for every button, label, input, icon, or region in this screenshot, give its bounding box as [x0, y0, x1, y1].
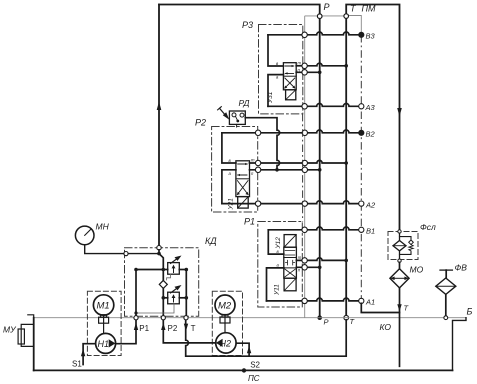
KD dash-dot box: [125, 248, 199, 317]
bottom of manifold: P dot and T circle on tank top: [317, 315, 322, 320]
svg-text:МУ: МУ: [3, 325, 17, 335]
wire: B2 row: [222, 130, 359, 133]
wire: FV to tank top: [445, 294, 447, 316]
port circles on plate: [302, 227, 307, 232]
motor unit 1 dashed box: [87, 291, 121, 355]
valve Y21 top cell arrows: [238, 164, 247, 175]
drain port PS dot: [242, 368, 246, 372]
svg-text:т: т: [298, 61, 302, 66]
wire: B2 loop to valve: [222, 133, 236, 163]
port A1 open: [359, 298, 364, 303]
coupling 1: [103, 315, 105, 333]
svg-text:P: P: [324, 2, 330, 12]
oil level gauge MU: [21, 324, 34, 346]
svg-text:У31: У31: [267, 91, 274, 104]
manifold plate thin right top corner to B3: [348, 16, 361, 33]
svg-text:МО: МО: [410, 265, 424, 275]
junction on P bus: [318, 266, 322, 270]
svg-text:А1: А1: [365, 298, 375, 307]
solenoid Y11 box: [284, 278, 296, 291]
wire: KP2 input: [163, 297, 167, 299]
S1 arrow up: [81, 349, 85, 356]
svg-text:У21: У21: [228, 198, 235, 211]
node: T top port circle: [344, 14, 349, 19]
svg-text:А2: А2: [365, 201, 376, 210]
tank left wall: [33, 318, 35, 371]
svg-text:а: а: [229, 171, 232, 176]
section P3 dash-dot box: [259, 25, 303, 114]
P1 flow arrow up: [134, 323, 138, 330]
svg-text:МН: МН: [96, 222, 110, 232]
node: P1 circle on tank top: [134, 316, 138, 320]
wire: B1 loop to valve: [268, 230, 284, 254]
P bus vertical line: [319, 19, 321, 318]
svg-text:Н1: Н1: [98, 339, 110, 349]
wire: KP2 output to T riser: [179, 297, 186, 299]
wire: P2 riser down and to H2 inlet: [163, 320, 215, 343]
wire: cooler to tank: [399, 288, 401, 366]
motor M2 circle: [215, 295, 235, 315]
wire: A1/B line to drain: [361, 303, 399, 312]
wire: to cooler MO: [399, 262, 401, 268]
pump H2 triangle: [216, 339, 223, 347]
wire: main pressure top line from riser to P node: [159, 5, 320, 14]
svg-text:КО: КО: [380, 322, 392, 332]
svg-text:Р: Р: [324, 318, 329, 327]
svg-text:п: п: [251, 171, 254, 176]
port A2 open: [359, 201, 364, 206]
valve bottom cell crossed arrows: [285, 269, 296, 277]
wire: P2 riser inside KD below check valve: [162, 288, 164, 316]
wire: valve Y21 T row to T bus: [250, 160, 346, 163]
svg-text:S2: S2: [250, 361, 260, 370]
S2 arrow up: [247, 346, 251, 353]
junction on P bus: [318, 168, 322, 172]
svg-text:Р3: Р3: [242, 20, 253, 30]
wire: P1 branch joining riser: [136, 269, 163, 271]
manifold plate thin left edge: [304, 16, 306, 318]
junction on T bus: [344, 259, 348, 263]
motor unit 2 dashed box: [212, 291, 242, 355]
tank top left lip: [28, 315, 34, 318]
pump H2 circle: [216, 333, 236, 353]
svg-text:У11: У11: [274, 284, 281, 296]
KP1 adjustment arrow: [171, 257, 180, 263]
wire: valve P row to P bus: [296, 266, 318, 268]
tank top thin line: [34, 317, 466, 319]
T return arrow down: [397, 304, 401, 311]
valve Y21 body: [236, 161, 250, 197]
KP2 adjustment arrow: [171, 287, 180, 293]
svg-text:P2: P2: [168, 324, 178, 333]
node: circle at Fsl outlet: [398, 259, 401, 262]
node: circle at Fsl inlet: [398, 230, 401, 233]
node: T circle on tank top: [184, 316, 188, 320]
manifold plate thin outline top: [305, 15, 346, 17]
svg-text:T: T: [191, 324, 196, 333]
wire: B3 loop to valve: [268, 35, 283, 66]
port circle T row on plate: [302, 63, 307, 68]
svg-text:а: а: [277, 263, 280, 268]
tank right wall with lip: [453, 318, 467, 371]
wire: B1 row: [268, 227, 359, 230]
wire: A3 row: [268, 104, 359, 107]
svg-text:Т: Т: [350, 317, 356, 326]
wire: left main riser from KD block up to top line: [158, 5, 160, 246]
wire: into filter: [399, 233, 401, 241]
air filter FV diamond: [436, 278, 456, 294]
wire: KP1 input: [163, 269, 167, 271]
wire: A2 loop to valve: [222, 170, 236, 204]
port B1 open: [359, 227, 364, 232]
svg-text:КД: КД: [205, 236, 217, 246]
relief valve KP2 square: [168, 292, 180, 304]
valve Y31 bottom cell crossed arrows: [285, 78, 295, 88]
svg-text:т: т: [251, 158, 255, 163]
wire: P1 riser: [135, 270, 137, 317]
junction on P bus: [318, 71, 322, 75]
section P2 dash-dot box: [212, 127, 258, 213]
valve Y21 bottom cell crossed arrows: [237, 181, 248, 195]
svg-text:В2: В2: [366, 130, 376, 139]
svg-text:ПС: ПС: [248, 374, 260, 383]
svg-text:P1: P1: [139, 324, 149, 333]
air filter FV top bar: [440, 269, 452, 271]
RD actuation arrow: [220, 108, 227, 117]
tiny port letters P3 valve: [229, 61, 302, 273]
svg-text:ПМ: ПМ: [362, 4, 377, 14]
port B2 filled: [359, 130, 364, 135]
wire: H1 outlet to P1 riser: [116, 320, 136, 344]
wire: T return down into tank, right and up to manifold T: [186, 320, 347, 357]
pump H1 circle: [96, 333, 116, 353]
wire: T riser inside KD: [185, 270, 187, 317]
junction on T bus: [344, 161, 348, 165]
junction RD on P row: [275, 168, 279, 172]
filter Fsl dashed box: [388, 232, 418, 260]
svg-text:т: т: [298, 255, 302, 260]
wire: KP1 output to T riser: [179, 269, 186, 271]
gauge MN circle: [75, 226, 94, 245]
port circle B3 row on plate: [302, 32, 307, 37]
wire: A1 loop to valve: [267, 268, 284, 301]
section P1 dash-dot box: [258, 222, 303, 308]
valve body 3 position: [284, 247, 297, 278]
svg-text:п: п: [298, 268, 301, 273]
port A3 open: [359, 104, 364, 109]
cooler MO diamond: [390, 269, 409, 288]
boundary dash-dot line with ports A/B: [360, 35, 362, 301]
svg-text:М2: М2: [218, 301, 232, 312]
wire: filter outlet: [399, 251, 401, 259]
wire: gauge line from riser: [85, 245, 157, 254]
wire: valve T row to T bus: [296, 258, 345, 261]
node: circle crossing KD box edge: [124, 252, 128, 256]
wire: H1 suction S1: [83, 344, 96, 365]
solenoid Y31 box: [286, 90, 296, 100]
junction on T bus: [344, 64, 348, 68]
valve middle cell closed center: [286, 260, 295, 265]
node: P top port circle: [317, 14, 322, 19]
port circles on P2 box edge: [255, 130, 260, 135]
pump H1 triangle: [109, 339, 116, 347]
wire: A1 row: [267, 298, 359, 301]
KP1 pilot hook: [167, 274, 171, 280]
cooler arrows: [393, 277, 406, 279]
wire: T top line to right drain column: [346, 5, 399, 230]
motor M1 circle: [93, 295, 113, 315]
svg-text:Б: Б: [467, 307, 473, 317]
relief valve KP1 square: [168, 263, 180, 275]
solenoid Y21 box: [238, 197, 249, 209]
wire: valve Y31 T row to T bus: [296, 63, 345, 66]
check valve diamond: [159, 280, 167, 288]
svg-text:М1: М1: [97, 301, 110, 312]
svg-text:S1: S1: [72, 360, 82, 369]
flow arrow down on right drain line: [397, 108, 402, 117]
T flow arrow down: [184, 324, 188, 331]
svg-text:Фсл: Фсл: [420, 222, 436, 232]
svg-text:Р1: Р1: [244, 217, 255, 227]
pressure switch RD box: [229, 111, 245, 124]
svg-text:Р2: Р2: [195, 118, 206, 128]
port circle A3 row on plate: [302, 104, 307, 109]
tank bottom: [34, 369, 453, 371]
valve Y31 top cell arrows: [285, 66, 293, 73]
coupling 2: [224, 315, 226, 333]
svg-text:В3: В3: [366, 32, 376, 41]
gauge needle: [85, 229, 92, 236]
flow arrow up on riser: [157, 102, 162, 111]
wire: S2 suction branch up to pump H2: [236, 343, 249, 356]
T bus vertical line: [345, 18, 347, 317]
svg-text:Т: Т: [404, 304, 410, 313]
dash-dot continuation between section boxes at plate edge: [302, 114, 304, 222]
svg-text:У12: У12: [275, 237, 282, 250]
svg-text:Н2: Н2: [220, 339, 232, 349]
solenoid Y12 box: [284, 235, 296, 248]
wire: A2 row: [222, 201, 359, 204]
port B3 filled: [359, 32, 364, 37]
svg-text:А3: А3: [365, 103, 376, 112]
valve Y31 body: [283, 63, 296, 90]
node: FV circle on tank top: [444, 316, 448, 320]
port circles on plate: [302, 130, 307, 135]
wire: valve Y21 P row to P bus: [250, 169, 319, 171]
wire: valve Y31 P row to P bus: [296, 71, 318, 73]
node: P2 circle on tank top: [161, 316, 165, 320]
bypass branch with check and spring: [400, 237, 412, 255]
valve top cell arrows: [285, 250, 295, 255]
filter diamond: [393, 241, 406, 251]
svg-text:В1: В1: [366, 227, 375, 236]
svg-text:РД: РД: [239, 98, 250, 108]
port circle P row on plate: [302, 70, 307, 75]
node: riser crossing KD box top: [157, 246, 161, 250]
wire: B3 row: [268, 32, 359, 35]
svg-text:ФВ: ФВ: [455, 263, 468, 273]
wire: A3 loop to valve: [268, 75, 283, 107]
KP2 pilot line to P1: [136, 304, 174, 313]
wire: RD sensing line down to P row: [245, 118, 279, 168]
P2 flow arrow up: [161, 323, 165, 330]
wire: riser inside KD with jog: [159, 250, 163, 281]
